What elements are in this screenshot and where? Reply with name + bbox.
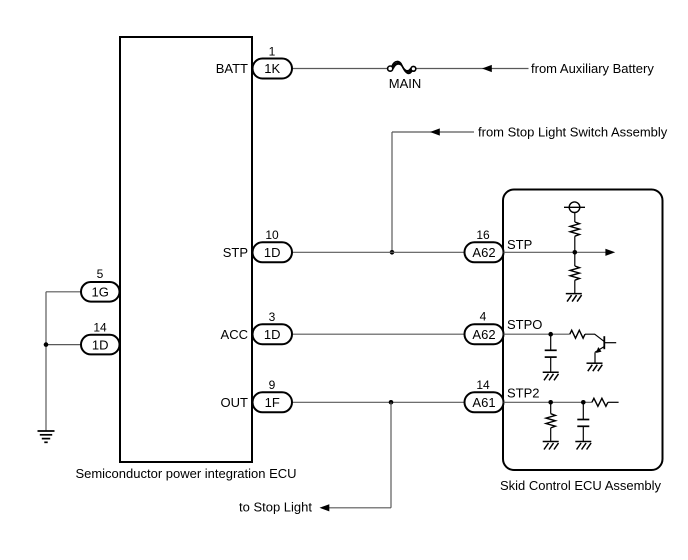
svg-text:1: 1 (269, 44, 276, 58)
svg-text:10: 10 (265, 228, 279, 242)
connector terminal 1D pin 10 (STP) (223, 228, 292, 262)
wire BATT to MAIN filter (292, 68, 388, 70)
svg-text:1G: 1G (92, 285, 109, 300)
junction on OUT wire (389, 400, 394, 405)
arrowhead to Stop Light (points left) (320, 504, 330, 511)
ground (signal, STPO capacitor) (543, 372, 559, 380)
ground (chassis, left) (38, 431, 55, 442)
wire resistor to ground (574, 280, 576, 293)
wire junction to capacitor (STP2) (582, 402, 584, 419)
arrowhead STP internal (points right) (605, 249, 615, 256)
wire power circle to resistor (574, 213, 576, 223)
svg-text:A62: A62 (472, 327, 495, 342)
wire STPO inside box (504, 333, 570, 335)
svg-text:STP: STP (223, 245, 248, 260)
svg-text:4: 4 (480, 310, 487, 324)
wire transistor emitter to ground (594, 352, 596, 363)
wire left vertical to ground (45, 292, 47, 431)
wire 1G to left vertical (46, 291, 81, 293)
svg-text:STP: STP (507, 237, 532, 252)
ground (signal, STPO emitter) (587, 363, 603, 371)
svg-text:from Stop Light Switch Assembl: from Stop Light Switch Assembly (478, 125, 668, 140)
wire vertical OUT to stop light (390, 402, 392, 508)
svg-text:3: 3 (269, 310, 276, 324)
wire from Stop Light Switch Assembly horizontal (392, 131, 474, 133)
connector terminal 1F pin 9 (OUT) (221, 378, 292, 412)
ground (signal, STP2 resistor) (543, 442, 559, 450)
wire MAIN filter to from-Auxiliary-Battery (416, 68, 529, 70)
wire horizontal to stop light (329, 507, 391, 509)
arrowhead from Auxiliary Battery (points left) (482, 65, 492, 72)
wire STP2 inside box (504, 401, 592, 403)
power source symbol (circle) STP pull-up (564, 202, 585, 213)
wire resistor to transistor base (585, 334, 604, 341)
svg-text:Skid Control ECU Assembly: Skid Control ECU Assembly (500, 478, 662, 493)
wire resistor to STP line (574, 236, 576, 252)
junction STPO internal (548, 332, 553, 337)
wire junction to resistor (STP2) (550, 402, 552, 413)
wire capacitor to ground (550, 357, 552, 372)
connector terminal A61 pin 14 (STP2) (465, 378, 540, 413)
svg-text:STP2: STP2 (507, 386, 540, 401)
resistor R (STP pull-up) (570, 222, 579, 236)
svg-text:A61: A61 (472, 395, 495, 410)
connector terminal A62 pin 16 (STP) (465, 228, 533, 262)
ECU box U1 (Semiconductor power integration ECU) (120, 37, 252, 462)
svg-text:to Stop Light: to Stop Light (239, 500, 312, 515)
transistor Q (STPO) (595, 336, 616, 353)
junction STP internal (573, 250, 578, 255)
capacitor C (STPO) (545, 350, 557, 357)
wire vertical stop light switch to STP line (391, 132, 393, 252)
ground (signal, STP2 capacitor) (575, 442, 591, 450)
resistor R (STP2 series, horizontal) (592, 398, 608, 406)
resistor R (STP2 pull-down) (546, 414, 555, 428)
wire junction to capacitor (550, 334, 552, 350)
svg-text:BATT: BATT (216, 61, 248, 76)
wire STP inside box (504, 251, 608, 253)
junction on STP wire (390, 250, 395, 255)
wire 1D to left vertical (46, 344, 81, 346)
svg-text:ACC: ACC (221, 327, 248, 342)
wire capacitor to ground (STP2) (582, 426, 584, 441)
resistor R (STP pull-down) (570, 266, 579, 280)
junction left vertical (44, 342, 49, 347)
svg-text:1F: 1F (265, 395, 280, 410)
connector terminal A62 pin 4 (STPO) (465, 310, 543, 345)
svg-text:Semiconductor power integratio: Semiconductor power integration ECU (75, 466, 296, 481)
svg-text:STPO: STPO (507, 317, 542, 332)
svg-text:OUT: OUT (221, 395, 249, 410)
connector terminal 1D pin 14 (left) (81, 321, 120, 355)
svg-text:14: 14 (476, 378, 490, 392)
ground (signal, STP pull-down) (566, 294, 582, 302)
svg-text:MAIN: MAIN (389, 76, 422, 91)
wire STP 1D to A62 (292, 251, 465, 253)
connector terminal 1G pin 5 (left) (81, 267, 120, 302)
svg-text:A62: A62 (472, 245, 495, 260)
svg-text:1D: 1D (264, 245, 281, 260)
capacitor C (STP2) (577, 420, 589, 427)
svg-text:1D: 1D (92, 337, 109, 352)
resistor R (STPO base, horizontal) (570, 330, 585, 338)
svg-text:1D: 1D (264, 327, 281, 342)
svg-text:16: 16 (476, 228, 490, 242)
connector terminal 1D pin 3 (ACC) (221, 310, 292, 344)
wire OUT 1F to A61 (292, 401, 465, 403)
wire after series resistor (608, 401, 619, 403)
skid control box (Skid Control ECU Assembly) (503, 190, 663, 471)
svg-text:14: 14 (93, 321, 107, 335)
svg-text:1K: 1K (264, 61, 280, 76)
svg-text:from Auxiliary Battery: from Auxiliary Battery (531, 61, 654, 76)
wire ACC 1D to A62 (292, 333, 465, 335)
connector terminal 1K pin 1 (BATT) (216, 44, 292, 78)
noise filter MAIN (twisted pair symbol) (388, 61, 416, 73)
wire resistor to ground (STP2) (550, 428, 552, 442)
svg-text:9: 9 (269, 378, 276, 392)
wire STP junction down (574, 252, 576, 266)
svg-text:5: 5 (97, 267, 104, 281)
arrowhead from Stop Light Switch Assembly (points left) (430, 128, 440, 135)
junction STP2 capacitor (581, 400, 586, 405)
junction STP2 resistor (548, 400, 553, 405)
